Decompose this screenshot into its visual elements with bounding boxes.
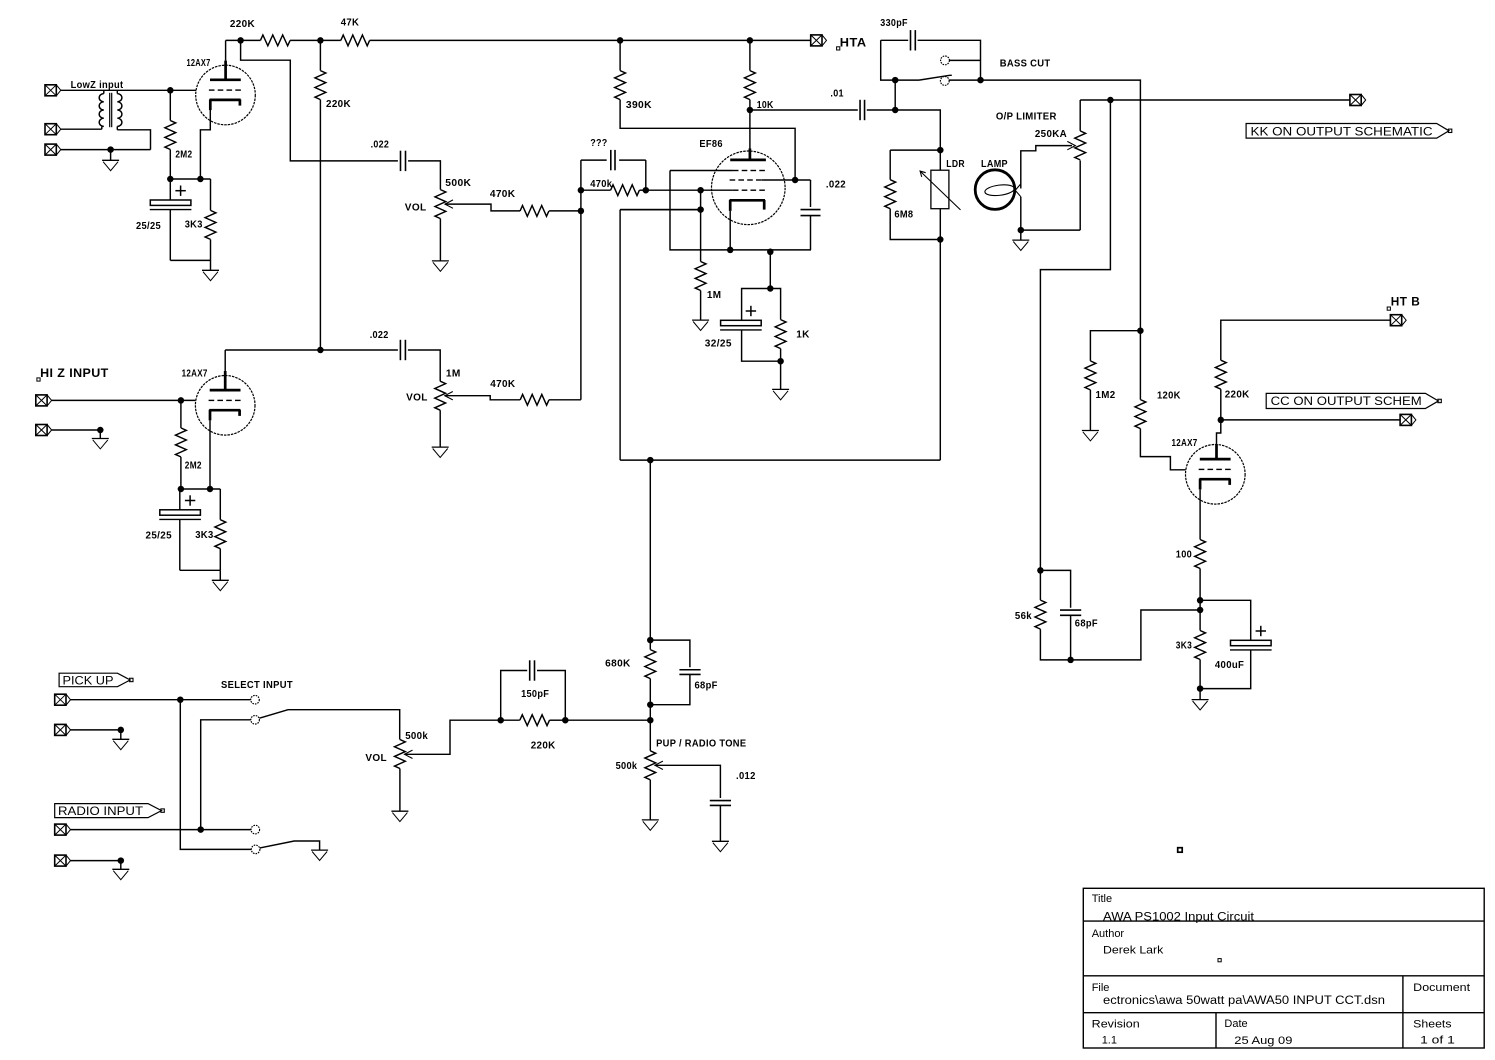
svg-text:10K: 10K bbox=[757, 100, 774, 111]
svg-text:SELECT INPUT: SELECT INPUT bbox=[221, 680, 293, 691]
svg-text:470K: 470K bbox=[490, 189, 516, 200]
svg-text:2M2: 2M2 bbox=[185, 461, 202, 472]
svg-text:330pF: 330pF bbox=[880, 18, 908, 29]
svg-text:RADIO INPUT: RADIO INPUT bbox=[58, 804, 144, 818]
svg-text:LowZ input: LowZ input bbox=[71, 80, 124, 91]
svg-text:3K3: 3K3 bbox=[1176, 641, 1192, 652]
svg-text:.012: .012 bbox=[736, 771, 756, 782]
svg-text:120K: 120K bbox=[1157, 391, 1181, 402]
svg-text:1M: 1M bbox=[707, 290, 722, 301]
svg-text:680K: 680K bbox=[605, 659, 631, 670]
svg-text:HTA: HTA bbox=[840, 36, 867, 50]
svg-text:12AX7: 12AX7 bbox=[187, 58, 211, 69]
svg-text:25 Aug 09: 25 Aug 09 bbox=[1234, 1035, 1292, 1047]
svg-text:HI Z INPUT: HI Z INPUT bbox=[40, 366, 109, 380]
svg-text:1K: 1K bbox=[796, 329, 810, 340]
svg-text:3K3: 3K3 bbox=[195, 530, 213, 541]
svg-text:47K: 47K bbox=[341, 17, 360, 28]
svg-text:220K: 220K bbox=[531, 740, 556, 751]
svg-text:Date: Date bbox=[1224, 1018, 1247, 1030]
svg-text:???: ??? bbox=[590, 138, 607, 149]
svg-text:VOL: VOL bbox=[406, 393, 428, 404]
svg-text:Title: Title bbox=[1092, 893, 1112, 905]
svg-text:12AX7: 12AX7 bbox=[182, 369, 208, 380]
svg-text:2M2: 2M2 bbox=[175, 149, 192, 160]
svg-text:220K: 220K bbox=[326, 99, 351, 110]
svg-text:EF86: EF86 bbox=[699, 139, 722, 150]
svg-text:220K: 220K bbox=[230, 19, 256, 30]
svg-text:68pF: 68pF bbox=[1075, 619, 1098, 630]
svg-text:32/25: 32/25 bbox=[705, 339, 732, 350]
svg-text:.022: .022 bbox=[371, 139, 390, 150]
svg-text:25/25: 25/25 bbox=[136, 221, 161, 232]
svg-text:500k: 500k bbox=[616, 761, 638, 772]
svg-text:470k: 470k bbox=[590, 179, 612, 190]
svg-text:KK ON OUTPUT SCHEMATIC: KK ON OUTPUT SCHEMATIC bbox=[1251, 124, 1433, 138]
svg-text:220K: 220K bbox=[1225, 389, 1250, 400]
svg-text:PICK UP: PICK UP bbox=[63, 673, 114, 687]
svg-text:1M: 1M bbox=[446, 369, 461, 380]
svg-text:.01: .01 bbox=[830, 89, 844, 100]
svg-text:400uF: 400uF bbox=[1215, 660, 1244, 671]
svg-text:O/P LIMITER: O/P LIMITER bbox=[996, 111, 1057, 122]
svg-text:CC ON OUTPUT SCHEM: CC ON OUTPUT SCHEM bbox=[1271, 394, 1422, 408]
svg-text:470K: 470K bbox=[490, 379, 516, 390]
svg-text:1M2: 1M2 bbox=[1096, 390, 1116, 401]
svg-text:File: File bbox=[1092, 982, 1110, 994]
svg-text:Derek Lark: Derek Lark bbox=[1103, 945, 1164, 957]
svg-text:56k: 56k bbox=[1015, 611, 1032, 622]
svg-text:100: 100 bbox=[1176, 549, 1192, 560]
svg-text:68pF: 68pF bbox=[695, 681, 718, 692]
svg-text:AWA PS1002 Input Circuit: AWA PS1002 Input Circuit bbox=[1103, 911, 1255, 923]
svg-text:LDR: LDR bbox=[946, 159, 965, 170]
svg-text:ectronics\awa 50watt pa\AWA50: ectronics\awa 50watt pa\AWA50 INPUT CCT.… bbox=[1103, 995, 1385, 1007]
svg-text:12AX7: 12AX7 bbox=[1172, 438, 1198, 449]
svg-text:Document: Document bbox=[1413, 982, 1470, 994]
svg-text:3K3: 3K3 bbox=[185, 220, 203, 231]
svg-text:LAMP: LAMP bbox=[981, 159, 1008, 170]
svg-text:BASS CUT: BASS CUT bbox=[1000, 58, 1051, 69]
svg-text:Revision: Revision bbox=[1092, 1019, 1140, 1031]
svg-text:1.1: 1.1 bbox=[1102, 1034, 1117, 1046]
svg-text:500k: 500k bbox=[405, 731, 428, 742]
svg-text:1 of 1: 1 of 1 bbox=[1420, 1034, 1455, 1046]
svg-text:Author: Author bbox=[1092, 928, 1125, 940]
svg-text:390K: 390K bbox=[626, 100, 652, 111]
svg-text:6M8: 6M8 bbox=[894, 210, 913, 221]
svg-text:250KA: 250KA bbox=[1035, 129, 1067, 140]
svg-text:.022: .022 bbox=[370, 330, 389, 341]
svg-text:VOL: VOL bbox=[365, 753, 387, 764]
svg-text:HT B: HT B bbox=[1391, 295, 1421, 309]
svg-text:25/25: 25/25 bbox=[146, 531, 172, 542]
svg-text:500K: 500K bbox=[445, 178, 471, 189]
svg-text:VOL: VOL bbox=[405, 203, 427, 214]
svg-text:150pF: 150pF bbox=[521, 689, 549, 700]
svg-text:Sheets: Sheets bbox=[1413, 1019, 1452, 1031]
svg-text:PUP / RADIO TONE: PUP / RADIO TONE bbox=[656, 739, 746, 750]
svg-text:.022: .022 bbox=[826, 180, 846, 191]
